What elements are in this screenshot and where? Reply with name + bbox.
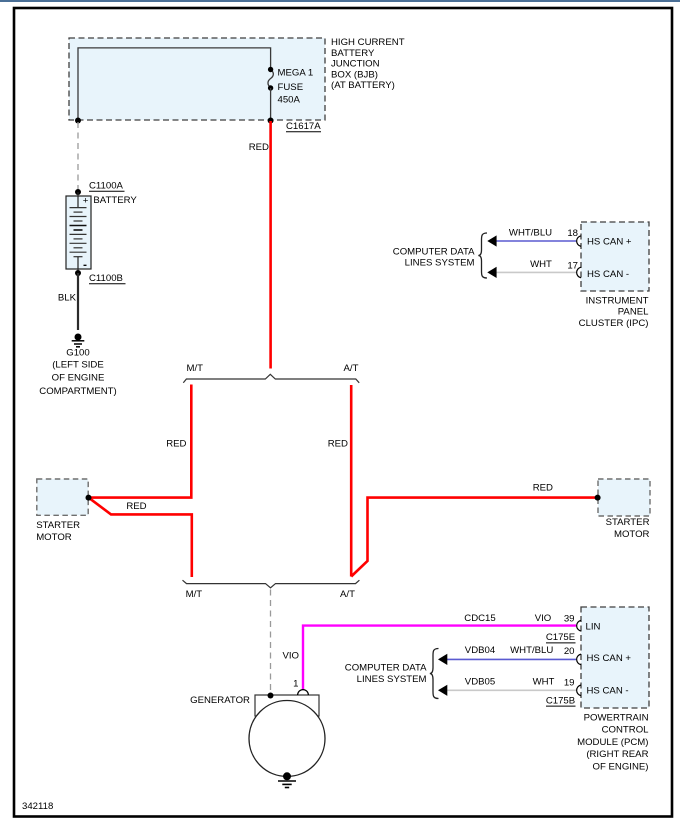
brace computer data lines (IPC) xyxy=(478,233,487,278)
fuse F1 MEGA 1 450A xyxy=(268,67,273,91)
svg-text:C175E: C175E xyxy=(546,632,575,643)
svg-text:BOX (BJB): BOX (BJB) xyxy=(331,69,378,80)
svg-text:RED: RED xyxy=(533,483,553,494)
wire WHT to IPC pin 17 xyxy=(496,271,576,273)
wire inside BJB xyxy=(78,48,271,121)
wire WHT/BLU to PCM pin 20 xyxy=(447,658,576,660)
pin 39 connector arc xyxy=(577,620,581,631)
wire RED starter to M/T lower xyxy=(89,498,192,577)
svg-text:POWERTRAIN: POWERTRAIN xyxy=(584,713,649,724)
svg-text:MOTOR: MOTOR xyxy=(614,529,650,540)
svg-text:HS CAN -: HS CAN - xyxy=(587,686,629,697)
wire RED A/T branch xyxy=(350,385,353,577)
starter motor left label xyxy=(36,520,80,543)
svg-text:COMPARTMENT): COMPARTMENT) xyxy=(39,386,116,397)
pin 19 connector arc xyxy=(577,685,581,696)
pin 18 connector arc xyxy=(577,236,581,247)
pin 1 connector arc xyxy=(298,690,309,695)
svg-text:STARTER: STARTER xyxy=(36,520,80,531)
connector C175E xyxy=(546,632,576,643)
svg-text:RED: RED xyxy=(166,439,186,450)
svg-text:RED: RED xyxy=(249,142,269,153)
svg-text:BATTERY: BATTERY xyxy=(93,195,137,206)
svg-text:RED: RED xyxy=(328,439,348,450)
svg-text:(RIGHT REAR: (RIGHT REAR xyxy=(586,749,648,760)
svg-text:WHT: WHT xyxy=(533,677,555,688)
battery B1 xyxy=(66,192,91,273)
svg-text:18: 18 xyxy=(567,228,578,239)
pin 20 connector arc xyxy=(577,654,581,665)
svg-text:BLK: BLK xyxy=(58,293,77,304)
svg-text:450A: 450A xyxy=(278,95,301,106)
arrowhead (PCM HS CAN +) xyxy=(438,654,447,665)
arrowhead (HS CAN -) xyxy=(487,267,496,278)
wire WHT/BLU to IPC pin 18 xyxy=(496,240,576,242)
starter motor right box xyxy=(598,479,650,516)
svg-text:M/T: M/T xyxy=(187,363,204,374)
svg-text:LINES SYSTEM: LINES SYSTEM xyxy=(405,258,475,269)
ground G100 label xyxy=(39,347,116,397)
fuse value label xyxy=(278,68,314,106)
wire RED M/T branch xyxy=(89,385,192,498)
svg-text:OF ENGINE): OF ENGINE) xyxy=(593,761,649,772)
connector C175B xyxy=(546,695,576,706)
svg-text:39: 39 xyxy=(564,614,575,625)
connector C1617A xyxy=(286,121,321,132)
window top edge bar xyxy=(0,0,680,2)
svg-text:WHT/BLU: WHT/BLU xyxy=(509,228,552,239)
connector C1100A xyxy=(89,181,125,192)
svg-text:STARTER: STARTER xyxy=(606,517,650,528)
svg-text:(AT BATTERY): (AT BATTERY) xyxy=(331,80,395,91)
svg-text:VDB04: VDB04 xyxy=(465,645,496,656)
svg-text:COMPUTER DATA: COMPUTER DATA xyxy=(345,663,427,674)
starter motor left box xyxy=(37,479,88,515)
computer data lines system label (IPC) xyxy=(393,247,475,269)
BJB name label xyxy=(331,37,405,91)
svg-text:RED: RED xyxy=(126,501,146,512)
svg-text:A/T: A/T xyxy=(344,363,359,374)
high current battery junction box BJB xyxy=(69,38,325,120)
svg-text:20: 20 xyxy=(564,646,575,657)
svg-text:C1100A: C1100A xyxy=(89,181,124,192)
dashed wire splice to generator xyxy=(270,590,272,695)
IPC pin labels xyxy=(587,236,632,279)
brace computer data lines (PCM) xyxy=(430,649,439,699)
svg-text:A/T: A/T xyxy=(340,589,355,600)
arrowhead (PCM HS CAN -) xyxy=(438,685,447,696)
wire BLK battery to ground xyxy=(77,273,79,330)
svg-text:VDB05: VDB05 xyxy=(465,677,495,688)
svg-text:+: + xyxy=(83,195,89,206)
computer data lines system label (PCM) xyxy=(345,663,427,686)
connector C1100B xyxy=(89,273,126,284)
arrowhead (HS CAN +) xyxy=(487,235,496,246)
node starter motor left terminal xyxy=(86,495,92,501)
IPC name label xyxy=(579,296,649,329)
starter motor right label xyxy=(606,517,650,540)
wire RED from C1617A down xyxy=(269,121,272,369)
svg-text:G100: G100 xyxy=(66,347,89,358)
svg-text:(LEFT SIDE: (LEFT SIDE xyxy=(52,360,104,371)
PCM name label xyxy=(577,713,649,773)
svg-text:C175B: C175B xyxy=(546,695,575,706)
svg-text:HS CAN -: HS CAN - xyxy=(587,269,629,280)
svg-text:VIO: VIO xyxy=(535,613,552,624)
splice bracket bottom M/T A/T xyxy=(183,580,360,588)
node C1100B xyxy=(75,270,81,276)
svg-text:CLUSTER (IPC): CLUSTER (IPC) xyxy=(579,318,649,329)
svg-text:WHT/BLU: WHT/BLU xyxy=(510,645,553,656)
ground at generator xyxy=(278,772,296,787)
svg-text:19: 19 xyxy=(564,678,575,689)
svg-text:WHT: WHT xyxy=(530,259,552,270)
svg-text:LIN: LIN xyxy=(586,622,601,633)
powertrain control module PCM box xyxy=(581,607,649,708)
instrument panel cluster IPC box xyxy=(581,222,649,291)
svg-text:FUSE: FUSE xyxy=(278,82,304,93)
wire VIO CDC15 generator to PCM pin 39 xyxy=(303,626,576,690)
PCM pin labels xyxy=(586,622,632,697)
svg-text:CDC15: CDC15 xyxy=(464,613,495,624)
svg-text:M/T: M/T xyxy=(186,589,203,600)
svg-text:1: 1 xyxy=(293,679,298,690)
svg-text:MODULE (PCM): MODULE (PCM) xyxy=(577,737,648,748)
dashed wire BJB to battery xyxy=(77,122,79,190)
pin 17 connector arc xyxy=(577,267,581,278)
svg-text:INSTRUMENT: INSTRUMENT xyxy=(586,296,649,307)
node C1100A xyxy=(75,189,81,195)
wire WHT to PCM pin 19 xyxy=(447,689,576,691)
svg-text:LINES SYSTEM: LINES SYSTEM xyxy=(357,674,427,685)
svg-text:C1100B: C1100B xyxy=(89,273,123,284)
svg-text:HS CAN +: HS CAN + xyxy=(587,653,632,664)
splice bracket top M/T A/T xyxy=(183,374,359,383)
node C1617A terminal xyxy=(268,118,274,124)
wire RED starter right to A/T xyxy=(351,498,597,577)
node generator case terminal xyxy=(268,693,274,699)
svg-text:GENERATOR: GENERATOR xyxy=(190,695,250,706)
svg-text:HS CAN +: HS CAN + xyxy=(587,236,632,247)
svg-text:BATTERY: BATTERY xyxy=(331,48,375,59)
svg-text:JUNCTION: JUNCTION xyxy=(331,59,380,70)
svg-text:PANEL: PANEL xyxy=(618,307,649,318)
generator G1 xyxy=(249,695,325,777)
ground G100 xyxy=(72,334,85,347)
svg-text:HIGH CURRENT: HIGH CURRENT xyxy=(331,37,405,48)
svg-text:OF ENGINE: OF ENGINE xyxy=(52,373,105,384)
svg-text:VIO: VIO xyxy=(282,651,299,662)
svg-text:COMPUTER DATA: COMPUTER DATA xyxy=(393,247,475,258)
node BJB left terminal xyxy=(75,118,81,124)
svg-text:342118: 342118 xyxy=(22,801,53,812)
svg-text:MEGA 1: MEGA 1 xyxy=(278,68,314,79)
svg-text:17: 17 xyxy=(567,260,578,271)
node starter motor right terminal xyxy=(595,495,601,501)
svg-text:C1617A: C1617A xyxy=(286,121,321,132)
wire fuse to BJB bottom xyxy=(270,88,272,121)
svg-text:CONTROL: CONTROL xyxy=(602,725,650,736)
svg-text:MOTOR: MOTOR xyxy=(36,532,72,543)
